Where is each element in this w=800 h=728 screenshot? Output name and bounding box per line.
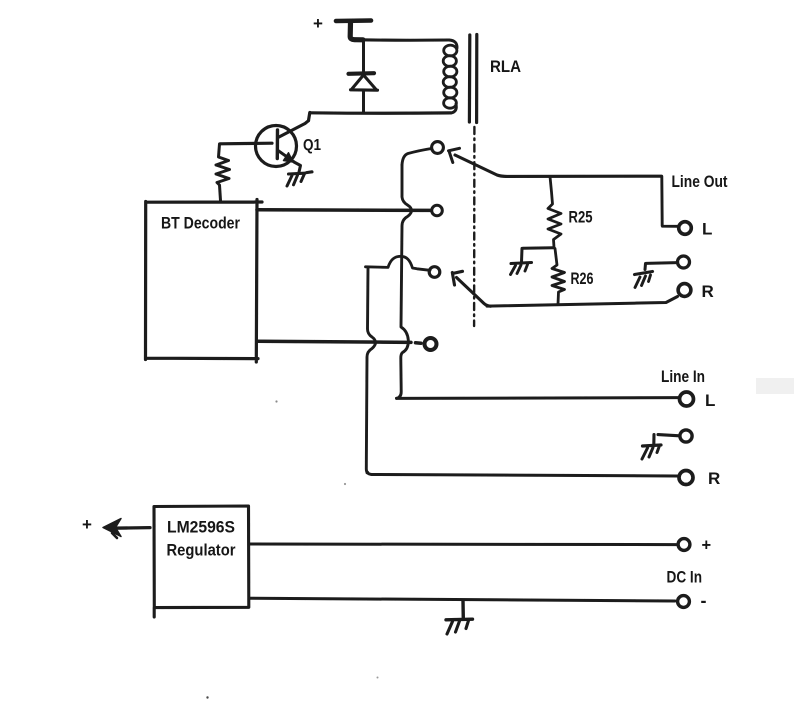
- switch arm 2 shaft: [457, 278, 491, 307]
- svg-text:R: R: [702, 282, 714, 301]
- BT Decoder box: [146, 200, 263, 363]
- resistor base zigzag: [216, 144, 230, 201]
- transistor Q1 base bar: [276, 130, 280, 159]
- supply terminal stub: [350, 22, 363, 40]
- scan noise dot 4: [275, 400, 277, 402]
- diode D1 triangle: [351, 75, 378, 90]
- relay core bar 1: [468, 35, 472, 122]
- bus wire 2 vertical: [366, 267, 375, 474]
- diode D1 anode wire: [362, 41, 365, 73]
- output arrow shaft: [113, 526, 150, 530]
- connector Line Out L: [679, 222, 692, 235]
- output arrow stray tick: [112, 533, 117, 538]
- ground Q1 emitter: [289, 172, 313, 174]
- scan noise dot 1: [206, 696, 208, 698]
- relay contact circle 4: [425, 338, 437, 350]
- wire line out ground: [645, 263, 677, 270]
- wire divider junction to ground: [522, 248, 554, 262]
- dashed separator line: [473, 127, 476, 326]
- wire DC minus: [249, 598, 675, 601]
- ground DC minus stub: [461, 601, 465, 619]
- transistor Q1 emitter arrow: [284, 153, 294, 162]
- wire BT to contact 4: [257, 341, 421, 343]
- wire coil bottom rail: [310, 111, 451, 115]
- connector Line Out ground: [678, 256, 690, 268]
- svg-text:Line In: Line In: [661, 368, 705, 386]
- scan noise dot 3: [344, 483, 346, 485]
- svg-text:R25: R25: [569, 209, 593, 227]
- scan noise dot 2: [377, 677, 379, 679]
- svg-text:Regulator: Regulator: [167, 542, 237, 560]
- svg-text:Line Out: Line Out: [672, 173, 728, 191]
- svg-text:Q1: Q1: [303, 137, 321, 154]
- svg-text:R26: R26: [571, 270, 594, 288]
- wire Line Out L drop: [662, 176, 678, 226]
- diode D1 cathode wire: [362, 91, 365, 113]
- relay coil RLA top corner: [449, 40, 457, 48]
- resistor R26: [552, 249, 565, 305]
- connector Line In ground: [680, 430, 692, 442]
- wire contact3 to bus2 with hop over bus1: [366, 256, 431, 270]
- wire emitter to ground: [294, 162, 301, 172]
- relay contact circle 1: [432, 142, 444, 154]
- connector Line In R: [679, 471, 693, 485]
- ground line out jack: [635, 272, 653, 275]
- connector Line Out R: [678, 284, 691, 297]
- LM2596S regulator box: [154, 506, 249, 617]
- connector Line In L: [680, 392, 694, 406]
- svg-text:LM2596S: LM2596S: [167, 519, 235, 537]
- diode D1 cathode bar: [349, 71, 375, 76]
- ground DC minus: [446, 618, 473, 622]
- junction dot bus2 corner: [366, 471, 370, 475]
- wire Line In L: [397, 396, 679, 400]
- wire Line In R: [372, 475, 678, 477]
- svg-text:RLA: RLA: [490, 58, 521, 76]
- switch arm 1 arrowhead: [449, 148, 460, 162]
- svg-text:L: L: [702, 220, 712, 239]
- ground divider: [511, 263, 532, 264]
- wire Line Out top: [506, 175, 662, 178]
- svg-text:-: -: [701, 591, 707, 611]
- svg-text:DC In: DC In: [667, 568, 703, 587]
- svg-text:+: +: [82, 515, 92, 534]
- transistor Q1 emitter stroke: [278, 151, 294, 162]
- supply terminal bar: [336, 18, 371, 23]
- switch arm 2 arrowhead: [452, 271, 462, 285]
- wire Line Out bottom: [487, 297, 678, 307]
- ground line in jack: [643, 445, 662, 446]
- wire base: [220, 142, 272, 146]
- relay contact circle 3: [429, 267, 440, 278]
- svg-text:+: +: [313, 14, 323, 33]
- transistor Q1 circle: [256, 126, 297, 167]
- switch arm 1 shaft: [455, 155, 506, 176]
- wire collector to rail: [309, 113, 310, 121]
- connector DC plus: [678, 539, 690, 551]
- svg-text:+: +: [702, 537, 712, 555]
- wire DC plus: [249, 543, 676, 547]
- bus wire 1 vertical: [397, 165, 412, 398]
- wire line in ground: [654, 435, 680, 445]
- relay coil RLA bottom corner: [452, 104, 456, 113]
- connector DC minus: [678, 596, 690, 608]
- relay contact circle 2: [432, 205, 443, 216]
- relay coil RLA loops: [444, 45, 457, 56]
- wire BT to contact 2: [257, 208, 431, 212]
- svg-text:BT Decoder: BT Decoder: [161, 214, 240, 233]
- wire supply to coil top: [354, 38, 449, 42]
- relay core bar 2: [475, 35, 478, 123]
- resistor R25: [548, 177, 561, 248]
- wire contact1 to bus1: [402, 149, 432, 166]
- svg-text:L: L: [705, 391, 715, 410]
- scan noise patch: [756, 378, 794, 394]
- transistor Q1 collector stroke: [278, 121, 309, 138]
- svg-text:R: R: [708, 469, 720, 488]
- output arrow head: [103, 519, 121, 537]
